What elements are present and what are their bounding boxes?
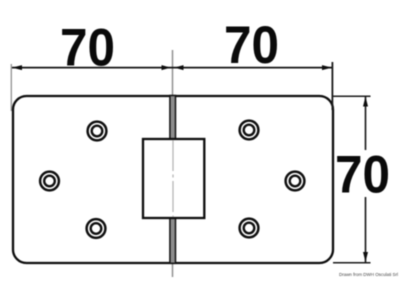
svg-text:70: 70 [335,146,390,205]
svg-text:70: 70 [60,19,115,78]
svg-text:Drawn from DWH Osculati Srl: Drawn from DWH Osculati Srl [339,272,398,277]
svg-text:70: 70 [224,16,279,75]
